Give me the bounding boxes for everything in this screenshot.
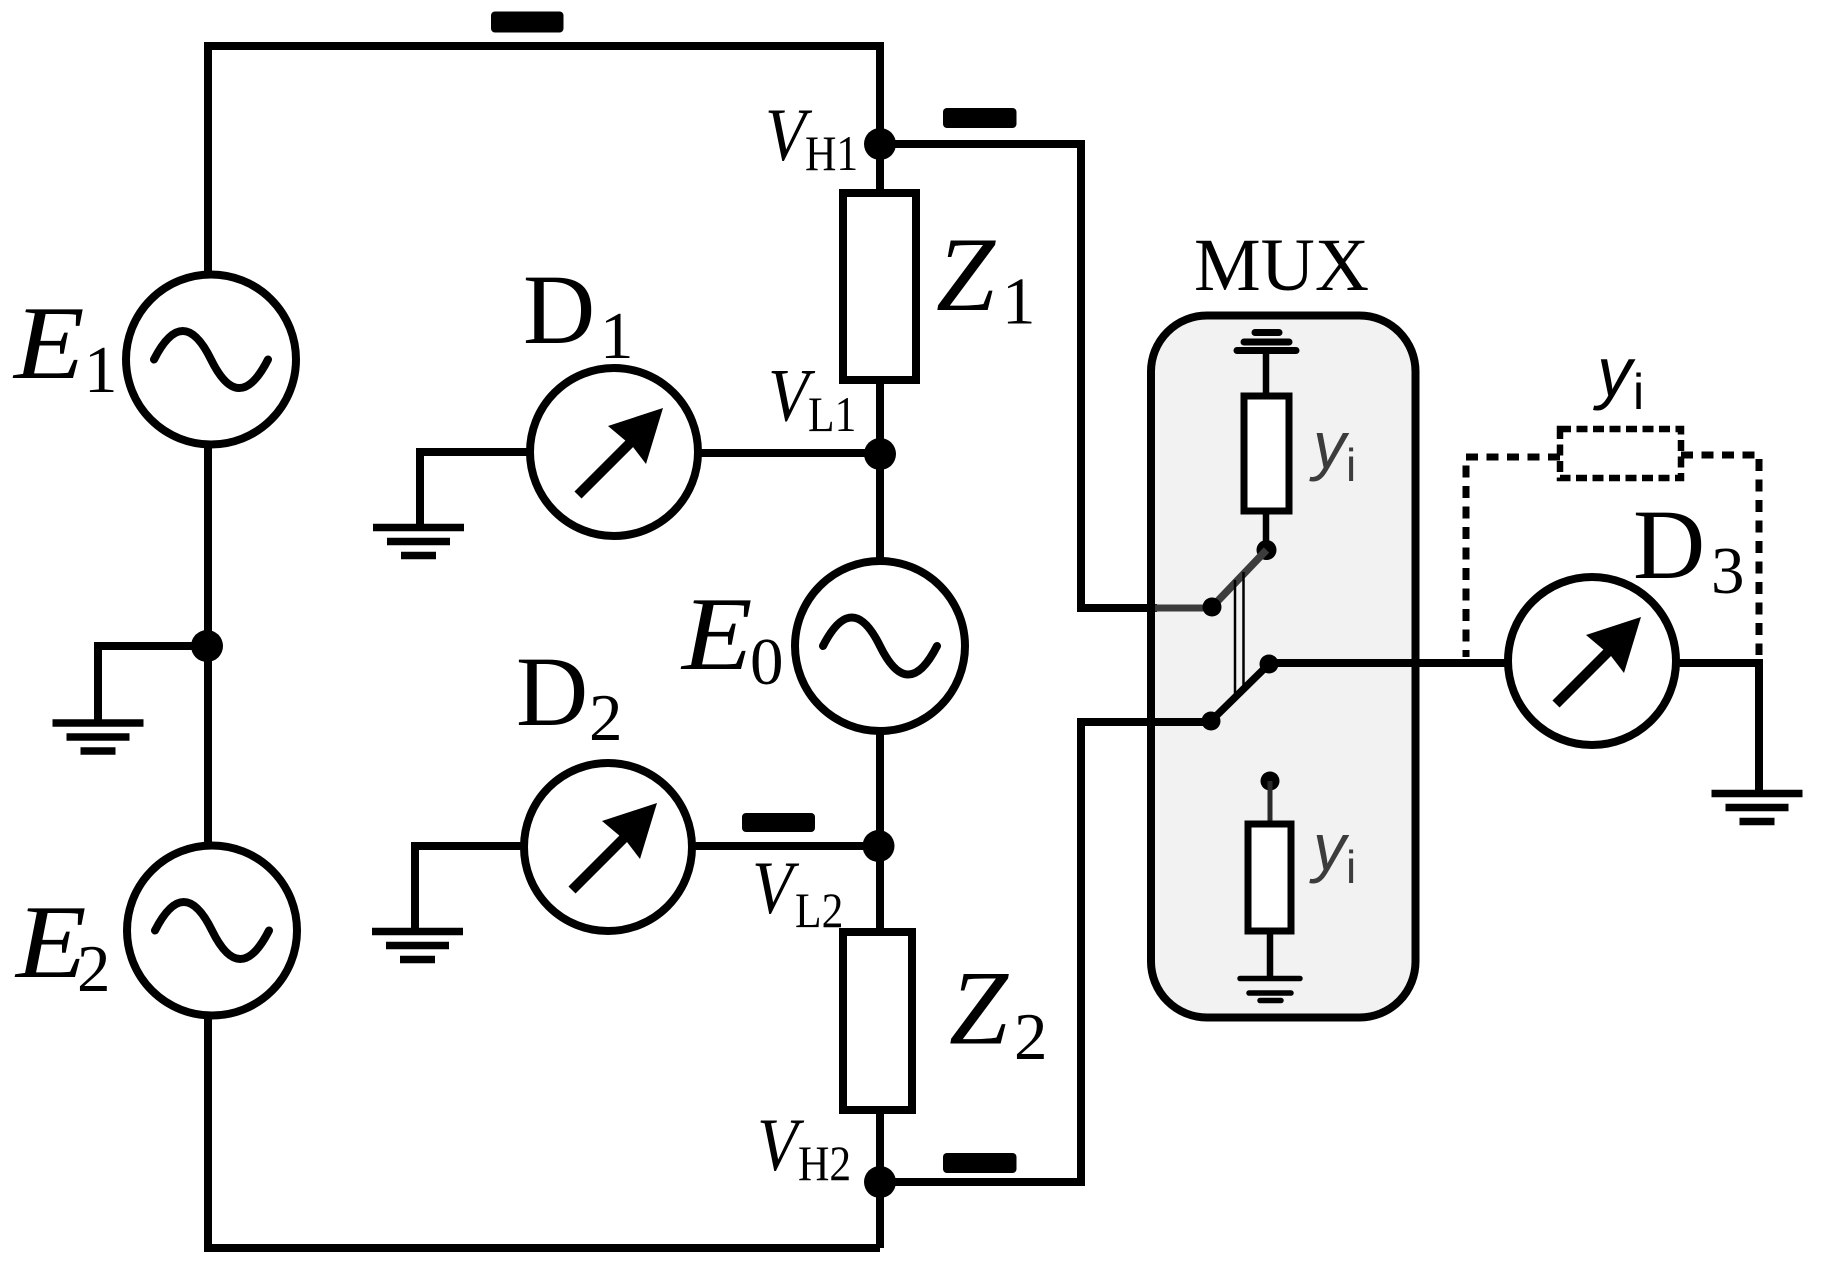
detector D3	[1508, 577, 1676, 745]
svg-text:E: E	[680, 576, 753, 692]
wire D2 left to ground	[415, 846, 527, 928]
lower yi node dot	[1261, 772, 1280, 791]
wire node to resistor lower	[1268, 781, 1273, 826]
svg-text:D: D	[523, 254, 595, 365]
resistor yi lower	[1248, 824, 1291, 931]
svg-text:i: i	[1346, 439, 1356, 491]
wire Z1 to VL1 to E0	[876, 378, 884, 563]
marker bar top	[491, 12, 564, 33]
node mid-left	[191, 630, 223, 662]
detector D1	[530, 368, 698, 536]
svg-text:E: E	[14, 884, 87, 1000]
svg-text:H1: H1	[805, 126, 858, 181]
svg-text:3: 3	[1711, 534, 1745, 608]
dashed admittance box yi	[1560, 429, 1681, 478]
switch 1 lever	[1212, 550, 1267, 607]
wire right rail VH1	[876, 42, 884, 195]
wire Z2 to VH2 to bottom	[876, 1108, 884, 1248]
source E1	[126, 275, 296, 445]
svg-text:1: 1	[84, 333, 118, 407]
wire VH2 to MUX input 2	[880, 722, 1211, 1182]
svg-text:MUX: MUX	[1194, 224, 1369, 307]
wire resistor to switch pole	[1263, 511, 1270, 545]
node VH2	[864, 1166, 896, 1198]
svg-text:y: y	[1593, 333, 1636, 411]
impedance Z2	[843, 932, 912, 1110]
switch 1 pole dot	[1257, 540, 1277, 560]
MUX inverted ground	[1237, 333, 1296, 351]
marker bar VH1	[943, 108, 1017, 128]
wire resistor lower to ground	[1267, 931, 1274, 977]
switch 2 common dot	[1260, 655, 1279, 674]
ground mid-left	[53, 723, 144, 751]
detector D2	[524, 763, 692, 931]
marker bar VL2	[742, 813, 815, 832]
MUX box	[1151, 316, 1416, 1018]
ground D2	[372, 932, 463, 960]
svg-text:y: y	[1309, 408, 1350, 482]
wire D1 right to VL1	[696, 449, 880, 457]
svg-text:H2: H2	[798, 1136, 851, 1191]
svg-text:1: 1	[600, 299, 634, 373]
ground D1	[373, 528, 464, 556]
wire top horizontal	[204, 42, 880, 50]
node VH1	[864, 128, 896, 160]
wire left rail lower	[204, 1013, 212, 1252]
dashed wire left	[1466, 457, 1560, 657]
svg-text:y: y	[1309, 810, 1350, 884]
svg-text:Z: Z	[936, 216, 996, 333]
wire MUX output to D3	[1269, 659, 1510, 667]
svg-text:V: V	[752, 848, 800, 930]
svg-text:D: D	[1633, 489, 1705, 600]
svg-text:2: 2	[77, 932, 111, 1006]
wire VH1 to MUX input 1	[880, 144, 1157, 608]
svg-text:L2: L2	[795, 883, 843, 938]
svg-text:L1: L1	[808, 387, 856, 442]
marker bar VH2	[943, 1153, 1017, 1173]
switch 2 throw dot	[1202, 712, 1221, 731]
switch 1 throw dot	[1203, 598, 1222, 617]
svg-text:0: 0	[750, 625, 784, 699]
switch 2 lever	[1211, 664, 1269, 721]
dashed wire right	[1681, 455, 1759, 655]
svg-text:Z: Z	[949, 950, 1009, 1067]
svg-text:E: E	[12, 285, 85, 401]
svg-text:D: D	[516, 636, 588, 747]
impedance Z1	[843, 193, 916, 380]
resistor yi upper	[1244, 396, 1289, 511]
svg-text:2: 2	[1014, 1000, 1048, 1074]
wire left rail middle	[204, 442, 212, 848]
svg-text:2: 2	[589, 681, 623, 755]
wire ground branch at mid node	[98, 646, 207, 720]
wire MUX ground to resistor	[1263, 354, 1270, 398]
wire MUX input 1 stub gray	[1155, 605, 1210, 612]
source E0	[795, 561, 965, 731]
MUX lower ground	[1240, 979, 1300, 1001]
wire left rail upper	[204, 42, 212, 277]
svg-text:i: i	[1346, 841, 1356, 893]
source E2	[127, 846, 297, 1016]
wire D3 right	[1674, 663, 1759, 790]
node VL1	[864, 438, 896, 470]
wire D2 right to VL2	[690, 842, 880, 850]
svg-text:1: 1	[1002, 265, 1036, 339]
gang link lines	[1235, 572, 1244, 694]
wire D1 left to ground	[420, 452, 532, 524]
wire bottom horizontal	[208, 1244, 880, 1252]
node VL2	[863, 830, 895, 862]
ground D3	[1712, 794, 1803, 822]
svg-text:i: i	[1633, 364, 1644, 420]
wire E0 to VL2 to Z2	[876, 729, 884, 934]
